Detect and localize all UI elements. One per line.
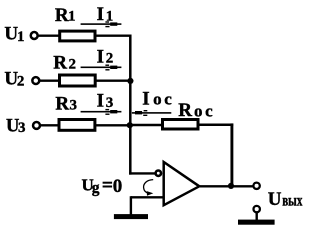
svg-text:R: R xyxy=(55,93,69,114)
label R1 xyxy=(55,5,76,26)
label I2 xyxy=(97,46,114,67)
label Roc xyxy=(178,100,215,121)
terminal U2 xyxy=(32,77,39,84)
current arrow Ioc (feedback, pointing left) xyxy=(132,110,171,116)
label R2 xyxy=(53,53,76,74)
svg-text:I: I xyxy=(97,46,104,67)
svg-text:ос: ос xyxy=(194,101,215,120)
wire stub to ground xyxy=(130,196,132,214)
resistor R1 xyxy=(60,31,95,41)
svg-text:2: 2 xyxy=(106,50,114,66)
svg-text:R: R xyxy=(178,100,192,121)
output junction node xyxy=(228,183,234,189)
label R3 xyxy=(55,93,77,114)
svg-text:U: U xyxy=(268,189,282,210)
label U3 xyxy=(6,116,26,136)
current arrow I1 xyxy=(81,21,122,27)
wire summing node to Roc xyxy=(132,124,164,126)
wire R1 to bus xyxy=(95,35,132,37)
svg-text:2: 2 xyxy=(69,57,77,73)
svg-text:2: 2 xyxy=(17,74,25,90)
svg-text:3: 3 xyxy=(106,95,114,111)
svg-text:g: g xyxy=(92,180,100,197)
svg-text:1: 1 xyxy=(68,9,76,25)
wire R3 to summing node xyxy=(94,124,132,126)
svg-text:3: 3 xyxy=(18,120,26,136)
wire U3 to R3 xyxy=(40,124,59,126)
svg-text:вых: вых xyxy=(282,192,302,209)
current arrow I2 xyxy=(81,65,122,71)
curved arrow (virtual zero pointer) xyxy=(144,180,154,196)
label Ioc xyxy=(142,89,174,110)
wire Roc to feedback corner xyxy=(198,123,234,126)
junction node row2 xyxy=(127,78,133,84)
output terminal xyxy=(253,183,259,189)
lower output terminal xyxy=(254,206,260,212)
feedback wire vertical xyxy=(230,123,233,186)
wire U1 to R1 xyxy=(37,35,60,37)
ground (op-amp input) xyxy=(114,214,148,219)
wire R2 to bus xyxy=(95,79,132,81)
summing node junction xyxy=(127,122,133,128)
svg-text:3: 3 xyxy=(70,98,78,114)
svg-text:ос: ос xyxy=(153,89,174,108)
wire U2 to R2 xyxy=(39,79,60,81)
bus wire (inverting input bus) xyxy=(129,35,132,175)
label I1 xyxy=(97,4,114,25)
terminal U3 xyxy=(33,122,40,129)
resistor R3 xyxy=(59,120,95,131)
wire bus to op-amp bubble xyxy=(129,172,155,174)
label Ud=0 xyxy=(82,175,123,197)
inverting input bubble xyxy=(156,171,161,176)
ground (output common) xyxy=(238,220,275,225)
wire op-amp output xyxy=(200,185,253,187)
svg-text:R: R xyxy=(53,53,67,74)
svg-text:I: I xyxy=(97,4,104,25)
svg-text:1: 1 xyxy=(17,29,25,45)
resistor R2 xyxy=(60,75,96,86)
svg-text:R: R xyxy=(55,5,69,26)
op-amp triangle xyxy=(164,162,200,205)
label U1 xyxy=(4,24,24,45)
label Uout xyxy=(268,189,303,210)
svg-text:0: 0 xyxy=(113,176,123,197)
wire non-inverting input xyxy=(131,196,164,198)
svg-text:I: I xyxy=(142,89,149,110)
svg-text:I: I xyxy=(97,91,104,112)
current arrow I3 xyxy=(81,109,122,115)
label I3 xyxy=(97,91,114,112)
label U2 xyxy=(4,69,24,90)
terminal U1 xyxy=(31,32,38,39)
resistor Roc xyxy=(163,120,199,130)
wire stub lower terminal xyxy=(256,213,258,220)
